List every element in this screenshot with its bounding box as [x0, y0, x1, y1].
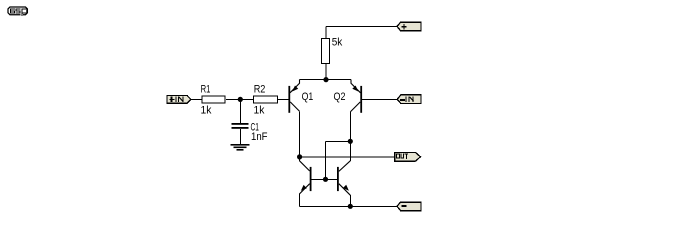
svg-text:1k: 1k [201, 105, 212, 117]
svg-text:R2: R2 [254, 84, 266, 96]
wire 5k top to + rail [325, 27, 327, 39]
wire 5k to emitters [325, 63, 327, 80]
ground [231, 144, 250, 151]
wire mirror bases [312, 178, 338, 180]
wire bracket down to mirror bases [325, 141, 327, 179]
svg-text:1k: 1k [254, 105, 265, 117]
port +IN [167, 95, 191, 103]
junction bottom rail [348, 204, 353, 209]
wire Q1 collector down [299, 111, 301, 161]
port -IN [397, 95, 421, 104]
svg-text:Q2: Q2 [334, 91, 346, 103]
capacitor C1 [232, 123, 249, 125]
port OUT [395, 152, 421, 161]
junction emitters/5k [323, 77, 328, 82]
junction mirror bases [323, 177, 328, 182]
wire emitter rail Q1-Q2 [300, 79, 352, 81]
transistor Q1 [288, 80, 299, 113]
wire collector-base bracket horizontal [326, 140, 351, 142]
resistor R1 [202, 96, 225, 103]
wire C1 to ground [240, 129, 242, 144]
port + supply [397, 22, 421, 31]
svg-text:5k: 5k [332, 36, 343, 48]
transistor Q2 [350, 80, 362, 113]
transistor Q4 (mirror right) [337, 161, 350, 207]
junction node at R1/R2/C1 [238, 97, 243, 102]
ESP logo [8, 7, 27, 16]
wire Q2 base to -IN [362, 99, 397, 101]
transistor Q3 (mirror left) [300, 161, 312, 207]
wire +IN to R1 [191, 99, 203, 101]
wire R2 to Q1 base [278, 99, 289, 101]
wire bottom rail [300, 205, 397, 207]
resistor 5k [322, 38, 330, 63]
wire + rail [326, 26, 397, 28]
resistor R2 [253, 96, 277, 103]
port - supply [397, 202, 421, 211]
wire OUT line [300, 156, 396, 158]
svg-text:1nF: 1nF [251, 131, 268, 143]
wire node to C1 [240, 100, 242, 124]
wire R1 to R2 [226, 99, 253, 101]
svg-text:R1: R1 [201, 84, 211, 96]
svg-text:Q1: Q1 [302, 91, 314, 103]
wire Q2 collector down [349, 112, 351, 161]
junction Q2 collector / mirror tie [348, 139, 353, 144]
junction OUT node [297, 154, 302, 159]
